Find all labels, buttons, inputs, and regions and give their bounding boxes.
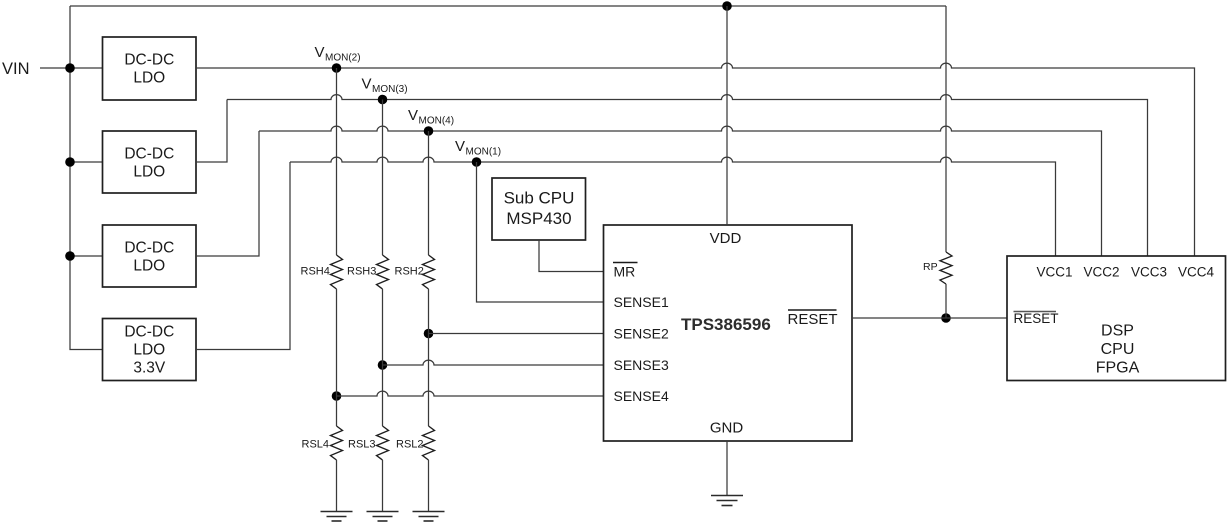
node VMON(2) label xyxy=(315,44,361,63)
junction RP reset node xyxy=(941,313,951,323)
wire GND stem xyxy=(726,441,728,496)
wire RESET net xyxy=(852,317,1007,319)
svg-text:RSH3: RSH3 xyxy=(347,266,376,278)
resistor RSL2 xyxy=(423,426,435,460)
wire Sub CPU to MR pin xyxy=(539,240,604,272)
wire VMON(4) net LDO3 output riser xyxy=(196,131,259,256)
junction SENSE2 tap xyxy=(424,329,434,339)
IC U1 TPS386596 xyxy=(604,225,853,441)
svg-text:DC-DC: DC-DC xyxy=(124,146,174,163)
wire SENSE1 from VMON1 xyxy=(477,162,604,302)
ground TPS386596 xyxy=(711,496,743,506)
resistor RSL4 xyxy=(331,426,343,460)
svg-text:RESET: RESET xyxy=(788,311,838,328)
wire left VIN bus vertical into LDO4 xyxy=(70,6,103,350)
resistor RSH4 xyxy=(331,255,343,289)
svg-text:DC-DC: DC-DC xyxy=(124,52,174,69)
block DC-DC LDO 3 xyxy=(103,225,197,287)
svg-text:DSP: DSP xyxy=(1101,323,1134,340)
wire SENSE3 xyxy=(383,360,604,365)
svg-text:SENSE1: SENSE1 xyxy=(614,294,669,310)
svg-text:V: V xyxy=(455,138,465,155)
wire RP pull-up upper xyxy=(945,6,947,252)
wire RSH4 to RSL4 xyxy=(336,289,338,426)
wire SENSE2 xyxy=(429,333,604,335)
svg-text:GND: GND xyxy=(710,420,744,437)
block DSP CPU FPGA xyxy=(1007,256,1226,381)
junction VMON1 sense tap xyxy=(472,157,482,167)
svg-text:VCC2: VCC2 xyxy=(1083,265,1119,280)
svg-text:Sub CPU: Sub CPU xyxy=(504,189,575,208)
ground RSL2 xyxy=(413,512,445,522)
wire RSH3 chain upper xyxy=(382,100,384,256)
junction SENSE3 tap xyxy=(378,360,388,370)
svg-text:MON(4): MON(4) xyxy=(419,115,455,126)
junction VIN-LDO1 xyxy=(65,63,75,73)
svg-text:SENSE4: SENSE4 xyxy=(614,388,669,404)
block DC-DC LDO 2 xyxy=(103,131,197,193)
block DC-DC LDO 3.3V xyxy=(103,319,197,381)
wire RSH2 chain upper xyxy=(428,131,430,255)
node VMON(3) label xyxy=(362,76,408,95)
block DC-DC LDO 1 xyxy=(103,37,197,100)
svg-text:SENSE2: SENSE2 xyxy=(614,326,669,342)
svg-text:VDD: VDD xyxy=(710,230,742,247)
pin label RESET with overbar xyxy=(788,310,838,328)
ground RSL3 xyxy=(367,512,399,522)
svg-text:FPGA: FPGA xyxy=(1096,360,1140,377)
block Sub CPU MSP430 xyxy=(492,178,586,240)
junction VMON3 divider tap xyxy=(378,95,388,105)
svg-text:VIN: VIN xyxy=(2,60,30,78)
pin label MR with overbar xyxy=(613,263,638,280)
svg-text:MON(3): MON(3) xyxy=(372,84,408,95)
junction VIN-LDO3 xyxy=(65,251,75,261)
svg-text:LDO: LDO xyxy=(133,163,165,180)
wire LDO2 input stub xyxy=(70,161,103,163)
node VMON(4) label xyxy=(408,107,454,126)
svg-text:RSL3: RSL3 xyxy=(348,439,376,451)
wire VIN stub xyxy=(40,67,103,69)
svg-text:VCC3: VCC3 xyxy=(1131,265,1167,280)
wire VMON(2) net LDO1 output to VCC4 xyxy=(196,63,1195,256)
svg-text:VCC1: VCC1 xyxy=(1036,265,1072,280)
svg-text:V: V xyxy=(408,107,418,124)
wire RSL4 to ground xyxy=(336,460,338,512)
svg-text:MSP430: MSP430 xyxy=(506,209,571,228)
wire VMON(3) net to VCC3 xyxy=(227,95,1148,256)
svg-text:3.3V: 3.3V xyxy=(133,360,166,377)
junction VDD top rail xyxy=(722,1,732,11)
wire LDO3 input stub xyxy=(70,255,103,257)
resistor RP xyxy=(940,252,952,284)
wire RSL2 to ground xyxy=(428,460,430,512)
resistor RSL3 xyxy=(377,426,389,460)
svg-text:TPS386596: TPS386596 xyxy=(681,315,771,334)
svg-text:MON(2): MON(2) xyxy=(325,52,361,63)
svg-text:MR: MR xyxy=(614,264,636,280)
wire RSH4 chain upper xyxy=(336,68,338,255)
wire SENSE4 xyxy=(337,391,604,396)
wire RSH2 to RSL2 xyxy=(428,289,430,426)
svg-text:DC-DC: DC-DC xyxy=(124,240,174,257)
ground RSL4 xyxy=(321,512,353,522)
svg-text:RSL2: RSL2 xyxy=(396,439,424,451)
svg-text:V: V xyxy=(362,76,372,93)
junction VMON4 divider tap xyxy=(424,126,434,136)
svg-text:MON(1): MON(1) xyxy=(466,146,502,157)
svg-text:V: V xyxy=(315,44,325,61)
wire VMON(1) net to VCC1 xyxy=(290,157,1056,256)
svg-text:VCC4: VCC4 xyxy=(1178,265,1215,280)
svg-text:LDO: LDO xyxy=(133,69,165,86)
wire top rail VIN to RP xyxy=(70,5,946,7)
svg-text:DC-DC: DC-DC xyxy=(124,324,174,341)
wire VMON(4) net to VCC2 xyxy=(259,126,1102,256)
wire VMON(3) net LDO2 output riser xyxy=(196,100,227,163)
wire RSH3 to RSL3 xyxy=(382,289,384,426)
resistor RSH3 xyxy=(377,255,389,289)
wire RP lower xyxy=(945,284,947,318)
svg-text:RP: RP xyxy=(923,261,938,273)
svg-text:RSH2: RSH2 xyxy=(395,266,424,278)
svg-text:LDO: LDO xyxy=(133,342,165,359)
resistor RSH2 xyxy=(423,255,435,289)
wire VMON(1) net LDO4 output riser xyxy=(196,162,290,350)
pin label RESET DSP with overbar xyxy=(1014,311,1059,326)
junction SENSE4 tap xyxy=(332,391,342,401)
junction VMON2 divider tap xyxy=(332,63,342,73)
node VMON(1) label xyxy=(455,138,501,157)
junction VIN-LDO2 xyxy=(65,157,75,167)
svg-text:RESET: RESET xyxy=(1014,311,1059,326)
svg-text:CPU: CPU xyxy=(1101,341,1135,358)
svg-text:SENSE3: SENSE3 xyxy=(614,357,669,373)
svg-text:LDO: LDO xyxy=(133,257,165,274)
svg-text:RSL4: RSL4 xyxy=(302,439,330,451)
svg-text:RSH4: RSH4 xyxy=(301,266,330,278)
wire VDD supply xyxy=(726,6,728,225)
wire RSL3 to ground xyxy=(382,460,384,512)
